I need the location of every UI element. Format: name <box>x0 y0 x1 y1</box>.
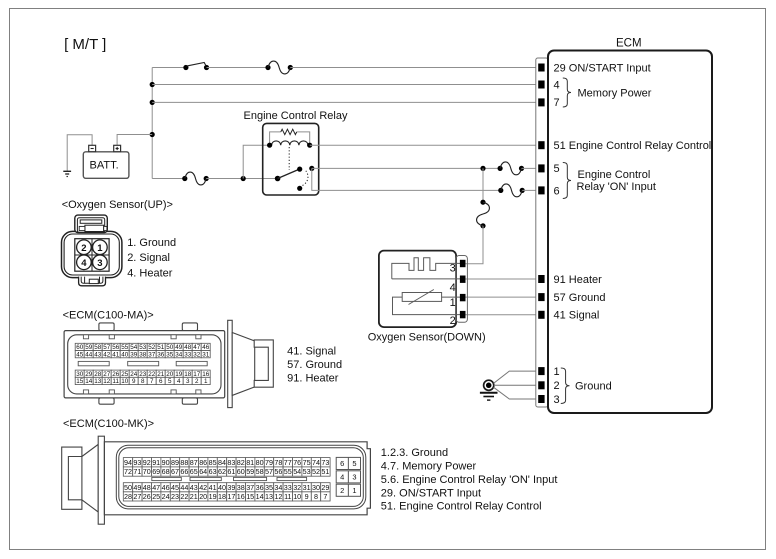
sensor(up) cavity 3 <box>93 255 108 270</box>
label ECM <box>616 37 642 49</box>
svg-text:2: 2 <box>340 486 344 495</box>
svg-text:45: 45 <box>171 483 179 492</box>
ECM connector strip <box>536 58 548 407</box>
svg-text:28: 28 <box>94 371 102 378</box>
svg-text:51. Engine Control Relay Contr: 51. Engine Control Relay Control <box>381 501 542 513</box>
sensor pin 4 terminal <box>450 276 465 294</box>
svg-text:66: 66 <box>180 467 188 476</box>
ECM pin 2 terminal <box>539 382 544 389</box>
wire ON/START line segment 1 <box>152 67 186 69</box>
svg-text:37: 37 <box>246 483 254 492</box>
svg-text:91: 91 <box>152 458 160 467</box>
svg-text:7: 7 <box>323 492 327 501</box>
svg-text:56: 56 <box>112 344 120 351</box>
svg-text:[ M/T ]: [ M/T ] <box>64 36 106 53</box>
node junction bus / battery + wire <box>150 132 155 137</box>
label 4.7. Memory Power <box>381 461 477 473</box>
svg-text:27: 27 <box>103 371 111 378</box>
label [ M/T ] <box>64 36 106 53</box>
wire relay output to ECM pin 5 segment 2 <box>522 167 540 169</box>
ground symbol (ECM grounds) <box>480 393 498 400</box>
label Relay ON Input <box>577 181 656 193</box>
svg-text:30: 30 <box>76 371 84 378</box>
svg-text:75: 75 <box>303 458 311 467</box>
svg-text:65: 65 <box>190 467 198 476</box>
svg-text:4: 4 <box>554 79 560 91</box>
wire heater drop upper <box>482 168 484 202</box>
svg-text:57. Ground: 57. Ground <box>287 359 342 371</box>
C100-MK side plate <box>98 436 104 524</box>
label pin 4 <box>554 79 560 91</box>
svg-text:3: 3 <box>554 394 560 406</box>
svg-text:87: 87 <box>190 458 198 467</box>
svg-text:41: 41 <box>112 351 120 358</box>
wire memory power to ECM pin 7 <box>152 101 539 103</box>
C100-MA outer shell <box>64 331 225 398</box>
node junction bus / memory-power line (pin4) <box>150 82 155 87</box>
svg-text:64: 64 <box>199 467 207 476</box>
svg-text:Engine Control: Engine Control <box>578 169 651 181</box>
sensor pin 2 terminal <box>450 311 465 327</box>
svg-text:6: 6 <box>554 186 560 198</box>
svg-text:11: 11 <box>112 378 119 385</box>
relay dotted throw arc <box>302 171 308 186</box>
oxygen sensor (down) connector bracket <box>456 256 467 323</box>
svg-text:59: 59 <box>85 344 93 351</box>
svg-text:38: 38 <box>237 483 245 492</box>
label Engine Control Relay <box>244 110 348 122</box>
wire ON/START line segment 3 to ECM pin 29 <box>290 67 539 69</box>
svg-text:47: 47 <box>152 483 160 492</box>
label pin 1 <box>554 366 560 378</box>
svg-text:4: 4 <box>81 258 87 269</box>
label pin 3 <box>554 394 560 406</box>
label Memory Power <box>578 88 652 100</box>
svg-text:26: 26 <box>143 492 151 501</box>
ECM pin 1 terminal <box>539 368 544 375</box>
svg-text:10: 10 <box>121 378 129 385</box>
svg-text:Memory Power: Memory Power <box>578 88 652 100</box>
svg-text:22: 22 <box>180 492 188 501</box>
svg-text:12: 12 <box>274 492 282 501</box>
svg-text:39: 39 <box>130 351 138 358</box>
svg-text:78: 78 <box>274 458 282 467</box>
svg-text:4. Heater: 4. Heater <box>127 268 173 280</box>
svg-text:35: 35 <box>265 483 273 492</box>
svg-text:3: 3 <box>352 472 356 481</box>
svg-text:55: 55 <box>284 467 292 476</box>
ECM pin 57 terminal <box>539 294 544 301</box>
svg-text:86: 86 <box>199 458 207 467</box>
svg-text:5: 5 <box>352 459 356 468</box>
svg-text:57 Ground: 57 Ground <box>554 292 606 304</box>
svg-text:15: 15 <box>246 492 254 501</box>
wire ground to ECM pin 3 <box>494 387 539 399</box>
svg-text:29: 29 <box>85 371 93 378</box>
svg-text:34: 34 <box>175 351 183 358</box>
C100-MK power pin block (1-6) <box>336 457 360 496</box>
svg-text:5.6. Engine Control Relay 'ON': 5.6. Engine Control Relay 'ON' Input <box>381 474 558 486</box>
wire relay coil to ECM pin 51 <box>310 144 539 146</box>
ECM pin 41 terminal <box>539 311 544 318</box>
svg-text:91. Heater: 91. Heater <box>287 372 339 384</box>
svg-text:2: 2 <box>554 380 560 392</box>
svg-text:91 Heater: 91 Heater <box>554 274 603 286</box>
relay switch pole <box>275 176 281 182</box>
label 4. Heater <box>127 268 173 280</box>
fuse F5 (heater drop) <box>477 200 490 229</box>
wire sensor pin 1 to ECM pin 57 <box>465 296 539 298</box>
svg-text:35: 35 <box>166 351 174 358</box>
svg-text:60: 60 <box>76 344 84 351</box>
label 2. Signal <box>127 252 170 264</box>
ECM pin 7 terminal <box>539 99 544 106</box>
svg-text:41 Signal: 41 Signal <box>554 310 600 322</box>
ECM pin 4 terminal <box>539 81 544 88</box>
svg-text:17: 17 <box>193 371 201 378</box>
wire heater drop lower to sensor pin 3 <box>465 226 483 264</box>
label 91. Heater <box>287 372 339 384</box>
svg-text:19: 19 <box>209 492 217 501</box>
svg-text:28: 28 <box>124 492 132 501</box>
ground (battery) <box>63 171 71 176</box>
svg-text:10: 10 <box>293 492 301 501</box>
ECM pin 91 terminal <box>539 276 544 283</box>
svg-text:83: 83 <box>227 458 235 467</box>
C100-MA pin grid upper (60-31) <box>75 343 210 358</box>
label Oxygen Sensor(UP) <box>62 199 173 211</box>
svg-text:1.2.3. Ground: 1.2.3. Ground <box>381 447 448 459</box>
svg-text:11: 11 <box>284 492 291 501</box>
svg-text:88: 88 <box>180 458 188 467</box>
svg-text:1: 1 <box>97 243 103 254</box>
svg-text:40: 40 <box>218 483 226 492</box>
svg-text:13: 13 <box>94 378 102 385</box>
relay switch armature <box>278 167 303 179</box>
wire relay output to ECM pin 6 segment 1 <box>312 168 501 190</box>
svg-text:2: 2 <box>81 243 86 254</box>
svg-text:21: 21 <box>190 492 198 501</box>
svg-text:5: 5 <box>168 378 172 385</box>
svg-text:46: 46 <box>162 483 170 492</box>
svg-text:36: 36 <box>157 351 165 358</box>
svg-text:63: 63 <box>209 467 217 476</box>
svg-text:15: 15 <box>76 378 84 385</box>
label pin 51 <box>554 140 712 152</box>
svg-text:7: 7 <box>554 97 560 109</box>
svg-text:24: 24 <box>162 492 170 501</box>
svg-text:Ground: Ground <box>575 380 612 392</box>
svg-text:51: 51 <box>321 467 329 476</box>
svg-text:51: 51 <box>157 344 165 351</box>
label Engine Control <box>578 169 651 181</box>
svg-text:32: 32 <box>193 351 201 358</box>
label Ground <box>575 380 612 392</box>
svg-text:60: 60 <box>237 467 245 476</box>
relay coil L1 <box>267 141 312 148</box>
svg-text:18: 18 <box>218 492 226 501</box>
C100-MK inner shell <box>116 445 365 509</box>
svg-text:47: 47 <box>193 344 201 351</box>
svg-text:61: 61 <box>227 467 235 476</box>
brace memory power <box>563 78 571 107</box>
svg-text:4.7. Memory Power: 4.7. Memory Power <box>381 461 477 473</box>
wire memory power to ECM pin 4 <box>152 84 539 86</box>
label 41. Signal <box>287 345 336 357</box>
svg-text:42: 42 <box>199 483 207 492</box>
battery - terminal <box>89 145 96 151</box>
relay contact NO <box>309 166 314 171</box>
svg-text:54: 54 <box>130 344 138 351</box>
wire thermistor to pin 2 <box>393 297 461 315</box>
svg-text:3: 3 <box>186 378 190 385</box>
svg-text:45: 45 <box>76 351 84 358</box>
C100-MK pin grid lower (50-7) <box>123 483 330 501</box>
fuse F3 (pin 5 line) <box>498 162 525 175</box>
svg-text:1: 1 <box>352 486 356 495</box>
svg-text:4: 4 <box>340 472 344 481</box>
oxygen sensor (down) box <box>379 251 456 328</box>
label Oxygen Sensor(DOWN) <box>368 331 486 343</box>
C100-MA keying notches <box>83 335 201 394</box>
wire battery feed segment 2 <box>206 178 277 180</box>
sensor(up) cavity 1 <box>93 240 108 255</box>
svg-text:58: 58 <box>94 344 102 351</box>
wire relay output to ECM pin 5 segment 1 <box>312 167 500 169</box>
fuse F2 (battery feed) <box>182 172 209 185</box>
svg-text:34: 34 <box>274 483 282 492</box>
svg-text:26: 26 <box>112 371 120 378</box>
wire battery - to ground <box>67 135 92 171</box>
label pin 5 <box>554 163 560 175</box>
C100-MK outer shell <box>104 442 370 515</box>
label 1. Ground <box>127 237 176 249</box>
svg-text:17: 17 <box>227 492 235 501</box>
svg-text:6: 6 <box>340 459 344 468</box>
svg-text:54: 54 <box>293 467 301 476</box>
brace relay on input <box>563 163 571 199</box>
svg-text:84: 84 <box>218 458 226 467</box>
svg-text:25: 25 <box>121 371 129 378</box>
svg-text:18: 18 <box>184 371 192 378</box>
svg-text:BATT.: BATT. <box>90 159 119 171</box>
svg-text:42: 42 <box>103 351 111 358</box>
sensor pin 3 terminal <box>450 260 465 274</box>
sensor(up) cavity 4 <box>77 255 92 270</box>
sensor pin 1 terminal <box>450 294 465 309</box>
wire main vertical bus (battery + feed) <box>151 68 153 179</box>
relay actuation dotted link <box>288 147 290 170</box>
svg-text:77: 77 <box>284 458 292 467</box>
svg-text:20: 20 <box>199 492 207 501</box>
label 5.6. Engine Control Relay ON Input <box>381 474 558 486</box>
svg-text:68: 68 <box>162 467 170 476</box>
svg-text:57: 57 <box>103 344 111 351</box>
sensor(up) cavity 2 <box>77 240 92 255</box>
sensor thermistor <box>402 290 441 305</box>
node junction pin5 wire / heater drop <box>480 166 485 171</box>
svg-text:59: 59 <box>246 467 254 476</box>
svg-text:31: 31 <box>303 483 311 492</box>
svg-text:ECM: ECM <box>616 37 642 49</box>
svg-text:Relay 'ON' Input: Relay 'ON' Input <box>577 181 656 193</box>
svg-text:92: 92 <box>143 458 151 467</box>
ECM pin 29 terminal <box>539 64 544 71</box>
label 51. Engine Control Relay Control <box>381 501 542 513</box>
svg-text:51 Engine Control Relay Contro: 51 Engine Control Relay Control <box>554 140 712 152</box>
svg-text:38: 38 <box>139 351 147 358</box>
svg-text:70: 70 <box>143 467 151 476</box>
wire sensor pin 2 to ECM pin 41 <box>465 314 539 316</box>
svg-text:2: 2 <box>195 378 199 385</box>
svg-text:36: 36 <box>256 483 264 492</box>
svg-text:67: 67 <box>171 467 179 476</box>
svg-text:44: 44 <box>85 351 93 358</box>
sensor(up) body inner <box>64 234 119 275</box>
C100-MK pin grid upper (94-51) <box>123 458 330 477</box>
svg-text:72: 72 <box>124 467 132 476</box>
svg-text:55: 55 <box>121 344 129 351</box>
svg-text:4: 4 <box>450 282 456 294</box>
svg-text:32: 32 <box>293 483 301 492</box>
svg-text:90: 90 <box>162 458 170 467</box>
svg-text:5: 5 <box>554 163 560 175</box>
label pin 91 <box>554 274 603 286</box>
svg-text:14: 14 <box>85 378 93 385</box>
svg-text:29. ON/START Input: 29. ON/START Input <box>381 488 481 500</box>
relay resistor <box>270 129 310 143</box>
label 57. Ground <box>287 359 342 371</box>
node junction bus / memory-power line (pin7) <box>150 100 155 105</box>
C100-MA rear bracket <box>254 340 273 387</box>
svg-text:22: 22 <box>148 371 156 378</box>
svg-text:46: 46 <box>202 344 210 351</box>
svg-text:14: 14 <box>256 492 264 501</box>
svg-text:<ECM(C100-MA)>: <ECM(C100-MA)> <box>63 310 154 322</box>
label ECM(C100-MK) <box>63 418 154 430</box>
svg-text:48: 48 <box>143 483 151 492</box>
svg-text:1. Ground: 1. Ground <box>127 237 176 249</box>
ECM pin 5 terminal <box>539 165 544 172</box>
wire relay coil left lead <box>243 145 269 178</box>
svg-text:6: 6 <box>159 378 163 385</box>
fuse F4 (pin 6 line) <box>498 184 525 197</box>
svg-text:29: 29 <box>321 483 329 492</box>
C100-MA rear shell <box>232 333 255 396</box>
C100-MA bottom tabs <box>99 398 198 404</box>
svg-text:1: 1 <box>450 297 456 309</box>
svg-text:25: 25 <box>152 492 160 501</box>
wire thermistor to pin 1 <box>442 296 461 298</box>
label pin 6 <box>554 186 560 198</box>
svg-text:73: 73 <box>321 458 329 467</box>
svg-text:43: 43 <box>94 351 102 358</box>
svg-text:80: 80 <box>256 458 264 467</box>
ECM pin 6 terminal <box>539 187 544 194</box>
label 29. ON/START Input <box>381 488 481 500</box>
sensor(up) pin field <box>75 239 109 272</box>
battery BATT. <box>83 152 129 179</box>
wire battery + to bus <box>117 135 152 146</box>
svg-text:16: 16 <box>202 371 210 378</box>
sensor heater element <box>392 258 461 279</box>
wire sensor pin 4 to ECM pin 91 <box>465 278 539 280</box>
C100-MK left bracket <box>62 447 82 509</box>
svg-text:8: 8 <box>314 492 318 501</box>
svg-text:79: 79 <box>265 458 273 467</box>
svg-text:58: 58 <box>256 467 264 476</box>
svg-text:9: 9 <box>132 378 136 385</box>
ignition switch SW1 <box>183 63 209 71</box>
svg-text:12: 12 <box>103 378 111 385</box>
fuse F1 (ON/START line) <box>265 61 293 74</box>
svg-text:<Oxygen Sensor(UP)>: <Oxygen Sensor(UP)> <box>62 199 173 211</box>
svg-text:23: 23 <box>139 371 147 378</box>
ground lug (ECM grounds) <box>484 380 494 390</box>
svg-text:8: 8 <box>141 378 145 385</box>
label pin 2 <box>554 380 560 392</box>
svg-text:20: 20 <box>166 371 174 378</box>
svg-text:2: 2 <box>450 315 456 327</box>
C100-MK key slots <box>152 477 307 480</box>
svg-text:41: 41 <box>209 483 217 492</box>
svg-text:<ECM(C100-MK)>: <ECM(C100-MK)> <box>63 418 154 430</box>
C100-MA pin grid lower (30-1) <box>75 370 210 385</box>
svg-text:Engine Control Relay: Engine Control Relay <box>244 110 348 122</box>
ECM pin 3 terminal <box>539 396 544 403</box>
svg-text:31: 31 <box>202 351 210 358</box>
svg-text:33: 33 <box>284 483 292 492</box>
svg-text:9: 9 <box>305 492 309 501</box>
C100-MK rear shell <box>82 444 98 512</box>
svg-text:48: 48 <box>184 344 192 351</box>
svg-text:27: 27 <box>133 492 141 501</box>
ECM pin 51 terminal <box>539 142 544 149</box>
label pin 57 <box>554 292 606 304</box>
svg-text:Oxygen Sensor(DOWN): Oxygen Sensor(DOWN) <box>368 331 486 343</box>
svg-text:52: 52 <box>148 344 156 351</box>
wire battery feed segment 1 <box>152 178 185 180</box>
svg-text:30: 30 <box>312 483 320 492</box>
svg-text:40: 40 <box>121 351 129 358</box>
svg-text:49: 49 <box>175 344 183 351</box>
svg-text:33: 33 <box>184 351 192 358</box>
svg-text:1: 1 <box>554 366 560 378</box>
svg-text:19: 19 <box>175 371 183 378</box>
svg-text:62: 62 <box>218 467 226 476</box>
relay contact NC <box>297 186 302 191</box>
node junction feed / relay coil <box>241 176 246 181</box>
svg-text:76: 76 <box>293 458 301 467</box>
label 1.2.3. Ground <box>381 447 448 459</box>
label ECM(C100-MA) <box>63 310 154 322</box>
wire ground to ECM pin 2 <box>494 384 539 386</box>
svg-text:50: 50 <box>124 483 132 492</box>
wire ON/START line segment 2 <box>207 67 269 69</box>
svg-text:23: 23 <box>171 492 179 501</box>
svg-text:49: 49 <box>133 483 141 492</box>
sensor(up) top tab <box>75 215 108 232</box>
relay K1 box <box>263 123 319 195</box>
svg-text:69: 69 <box>152 467 160 476</box>
svg-text:1: 1 <box>204 378 208 385</box>
svg-text:85: 85 <box>209 458 217 467</box>
svg-text:94: 94 <box>124 458 132 467</box>
svg-text:53: 53 <box>303 467 311 476</box>
C100-MA key slots <box>78 361 207 365</box>
svg-text:2. Signal: 2. Signal <box>127 252 170 264</box>
svg-text:82: 82 <box>237 458 245 467</box>
